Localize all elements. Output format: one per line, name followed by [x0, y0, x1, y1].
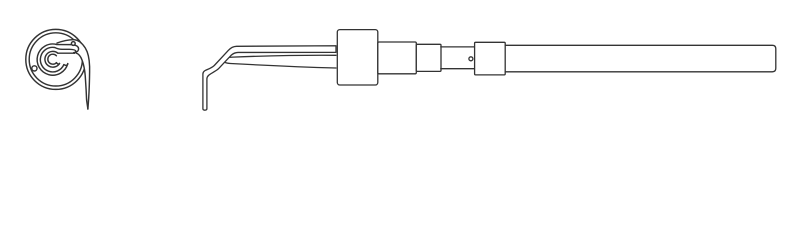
- hook outer edge: [57, 40, 90, 109]
- C spiral: inner band end cap: [56, 63, 59, 65]
- hole lower-left: [32, 66, 37, 71]
- small hole on band cap: [71, 42, 75, 46]
- outer circle (disc rim): [26, 29, 86, 89]
- hook inner edge: [77, 53, 88, 109]
- second block: [378, 42, 417, 74]
- handle block: [337, 30, 378, 85]
- C spiral: inner band outer arc: [45, 51, 60, 67]
- band bottom line: [58, 52, 74, 54]
- C spiral: outer arc + band top line + cap: [37, 44, 78, 75]
- third block: [416, 44, 441, 71]
- hook claw white body (covers circles): [57, 40, 90, 109]
- long rod with rounded right end: [505, 45, 776, 72]
- C spiral: outer band end cap: [64, 64, 68, 66]
- C spiral: second arc + band mid line + inner cap: [40, 47, 76, 72]
- band (rolled tube top) white body: [51, 45, 79, 54]
- inner circle (disc rim inner): [29, 33, 82, 86]
- short rod section bottom line: [441, 68, 475, 70]
- outer shaft with tapered nose: [223, 55, 336, 68]
- small hole on short rod: [469, 57, 473, 61]
- hook wire (closed white band with outline): [203, 46, 336, 110]
- collar: [475, 42, 506, 75]
- C spiral: inner band inner arc: [48, 54, 57, 64]
- short rod section top line: [441, 46, 475, 48]
